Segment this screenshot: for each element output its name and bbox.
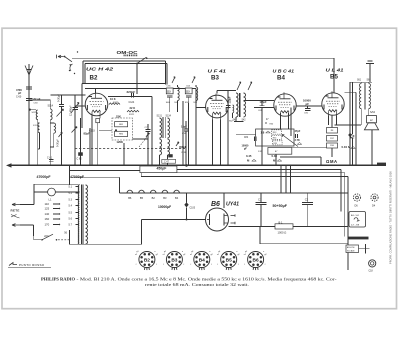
tube base B4 <box>190 251 213 270</box>
svg-text:B5: B5 <box>226 257 232 263</box>
dashed AVC line <box>75 148 185 150</box>
caption line 1 <box>41 277 337 283</box>
wire <box>177 172 345 174</box>
trimmer group C64 <box>185 77 198 104</box>
wire <box>345 91 356 93</box>
svg-text:A3 - 5/4: A3 - 5/4 <box>351 214 359 217</box>
svg-text:UC H 42: UC H 42 <box>86 67 114 72</box>
speaker <box>364 116 378 130</box>
svg-text:B4: B4 <box>277 75 285 82</box>
svg-text:C1: C1 <box>258 198 262 202</box>
svg-text:18pF: 18pF <box>181 126 187 129</box>
svg-text:C-60: C-60 <box>16 96 22 99</box>
diode <box>351 82 354 165</box>
svg-text:47000pF: 47000pF <box>37 175 52 179</box>
svg-text:R33: R33 <box>273 132 276 134</box>
svg-text:a1: a1 <box>244 254 246 256</box>
svg-text:115pF: 115pF <box>260 101 268 104</box>
svg-text:B3: B3 <box>171 257 177 263</box>
wire <box>280 156 321 158</box>
wire <box>290 108 292 137</box>
wire <box>340 170 342 212</box>
wire <box>83 60 166 62</box>
coil S117 <box>33 123 40 149</box>
tube label UBC 41 <box>273 69 295 74</box>
transformer T1 winding labels <box>69 186 79 227</box>
wire <box>244 100 263 102</box>
wire <box>169 103 171 112</box>
svg-text:C138: C138 <box>181 152 187 154</box>
wire <box>123 143 125 165</box>
svg-text:ΩMA: ΩMA <box>326 159 338 164</box>
tube B3 <box>206 94 229 121</box>
svg-text:170: 170 <box>45 223 50 227</box>
tube B2 <box>85 92 108 119</box>
transformer S61 S63 <box>357 80 371 110</box>
wire <box>75 105 85 107</box>
wire <box>262 100 274 102</box>
wire <box>260 193 262 202</box>
resistor 1.8M <box>261 130 271 134</box>
svg-text:1000 Ω: 1000 Ω <box>278 231 287 235</box>
svg-text:g2: g2 <box>238 254 240 256</box>
svg-text:B6: B6 <box>128 196 132 200</box>
resistor 0.04M <box>342 145 356 149</box>
wire <box>188 103 190 165</box>
heater chain filaments <box>127 190 179 200</box>
svg-text:OM-OC: OM-OC <box>117 50 139 55</box>
mains RETE <box>11 203 35 218</box>
svg-text:S42: S42 <box>242 119 247 121</box>
wire <box>69 230 71 245</box>
svg-text:120K: 120K <box>116 140 123 144</box>
trimmer group C65 <box>166 77 180 104</box>
wire <box>217 90 236 92</box>
variable capacitor 12-490pF <box>70 95 80 165</box>
resistor R34 <box>272 135 282 139</box>
potentiometer wiper arrow <box>282 135 298 147</box>
tube label B5 <box>330 73 338 80</box>
wire <box>223 193 225 208</box>
svg-text:g2: g2 <box>156 254 158 256</box>
wire <box>177 103 179 112</box>
wire <box>292 147 332 149</box>
tube base B6 <box>244 251 267 270</box>
wire <box>216 91 218 94</box>
wire <box>70 243 142 245</box>
pickup box <box>349 212 366 228</box>
wire heater line <box>120 192 349 194</box>
wire <box>254 107 274 109</box>
wire <box>335 124 362 126</box>
node diamond <box>348 133 352 137</box>
wire <box>50 94 85 96</box>
svg-text:PROPR. COMPILAZIONE RADIO - TU: PROPR. COMPILAZIONE RADIO - TUTTI I DIRI… <box>389 171 393 264</box>
wire <box>212 120 214 166</box>
svg-text:pF: pF <box>18 91 22 95</box>
capacitor 450pF box <box>140 166 177 173</box>
wire <box>89 128 91 165</box>
wire <box>333 58 335 96</box>
svg-text:5.3: 5.3 <box>69 199 73 202</box>
note punto rosso <box>8 263 51 268</box>
svg-text:a1: a1 <box>135 254 137 256</box>
coil S110 <box>29 109 38 166</box>
wire <box>97 123 99 166</box>
svg-text:C124: C124 <box>129 101 135 104</box>
wire <box>261 155 263 166</box>
svg-text:g1: g1 <box>191 251 193 253</box>
svg-text:B5: B5 <box>330 73 338 80</box>
wire <box>280 113 282 129</box>
svg-text:1.8: 1.8 <box>261 130 265 134</box>
resistor network box <box>256 129 294 146</box>
wire <box>119 177 121 193</box>
svg-text:B4: B4 <box>175 196 179 200</box>
capacitor C60 4700pF <box>16 87 32 99</box>
svg-text:350pF: 350pF <box>179 145 187 149</box>
antenna <box>25 64 33 165</box>
svg-text:220: 220 <box>44 234 49 238</box>
wire <box>82 61 84 84</box>
svg-text:160: 160 <box>45 217 50 221</box>
wire <box>34 183 79 185</box>
svg-text:g2: g2 <box>264 254 266 256</box>
coil S114 <box>48 100 54 165</box>
wire <box>234 121 244 123</box>
svg-text:5.2: 5.2 <box>69 192 73 195</box>
wire <box>290 165 292 193</box>
capacitor 47pF <box>295 130 301 138</box>
wire <box>70 169 140 171</box>
coil S118 <box>50 123 55 147</box>
svg-text:g1: g1 <box>164 251 166 253</box>
tube label B3 <box>211 75 219 82</box>
resistor 4.7K <box>295 139 302 145</box>
wire <box>331 148 333 157</box>
capacitor 47000pF second <box>70 175 85 179</box>
wire <box>82 83 166 85</box>
capacitor C63 82pF <box>26 97 41 104</box>
tube label B4 <box>277 75 285 82</box>
svg-text:rente totale 68 mA. Consumo to: rente totale 68 mA. Consumo totale 32 wa… <box>145 282 249 287</box>
tube B4 <box>274 92 296 118</box>
svg-text:B3: B3 <box>163 196 167 200</box>
node B6 heater terminals <box>231 214 236 224</box>
svg-text:125: 125 <box>45 207 50 211</box>
tube base B2 <box>135 251 158 270</box>
wire <box>84 64 86 84</box>
svg-text:M: M <box>265 123 267 125</box>
svg-text:47pF: 47pF <box>295 130 301 133</box>
svg-text:R34: R34 <box>273 138 276 140</box>
svg-text:S/64: S/64 <box>370 111 376 114</box>
coil S62 <box>229 105 234 123</box>
capacitor C84 10000pF <box>242 134 257 150</box>
svg-text:C2: C2 <box>305 198 309 202</box>
svg-text:10000μF: 10000μF <box>158 205 171 209</box>
svg-text:U L 41: U L 41 <box>326 68 345 73</box>
knob C18 <box>369 260 376 273</box>
svg-text:10 K: 10 K <box>110 97 116 101</box>
svg-text:R35: R35 <box>274 143 277 145</box>
wire <box>177 169 341 171</box>
capacitor 47000pF first <box>37 175 52 179</box>
wire <box>360 109 362 125</box>
capacitor C46 115pF left <box>226 91 232 166</box>
capacitor C147 <box>162 154 176 163</box>
svg-text:g1: g1 <box>245 251 247 253</box>
trimmer C138 350pF <box>176 142 187 154</box>
wire <box>307 193 309 202</box>
IF transformer S141 S142 <box>233 82 252 121</box>
jack D4 <box>371 194 378 208</box>
jack D6 <box>353 194 360 208</box>
wire <box>328 116 330 126</box>
wire <box>275 154 277 165</box>
svg-text:S61: S61 <box>357 80 362 82</box>
resistor box lower E7 <box>268 148 292 155</box>
label 50+50uF <box>273 204 288 208</box>
resistor R38 <box>327 128 338 134</box>
wire <box>140 173 142 177</box>
tube label B2 <box>90 74 98 81</box>
wire <box>166 64 168 85</box>
tube B6 <box>206 208 229 231</box>
svg-text:g2: g2 <box>211 254 213 256</box>
wire <box>85 87 196 89</box>
svg-text:S57-A58: S57-A58 <box>347 250 354 253</box>
wire <box>133 138 149 140</box>
capacitor C61 115pF <box>258 101 267 166</box>
svg-text:450pF: 450pF <box>157 167 167 171</box>
svg-text:RETE: RETE <box>11 209 20 213</box>
node S164 <box>370 111 376 114</box>
svg-text:S131: S131 <box>157 116 163 118</box>
svg-text:C 62: C 62 <box>77 157 83 160</box>
svg-text:B6: B6 <box>253 257 259 263</box>
resistor 120K <box>116 140 123 144</box>
resistor R122 10K <box>109 97 120 105</box>
resistor 0.45M <box>246 154 256 163</box>
svg-text:115pF: 115pF <box>229 96 232 104</box>
svg-text:a1: a1 <box>190 254 192 256</box>
svg-text:B6: B6 <box>211 201 220 208</box>
IF transformer S131 S134 <box>157 116 172 139</box>
switch wave-change <box>136 57 148 64</box>
wire <box>355 92 357 165</box>
capacitor C163 <box>89 129 117 132</box>
svg-text:4.7K: 4.7K <box>295 139 300 142</box>
svg-text:pF: pF <box>244 148 248 151</box>
fuse L1 <box>34 188 79 201</box>
wire <box>371 130 373 166</box>
connection box <box>346 244 370 254</box>
wire <box>260 243 348 245</box>
svg-text:C18: C18 <box>369 270 374 272</box>
svg-text:C105: C105 <box>190 208 196 210</box>
wire <box>236 133 248 135</box>
wire <box>95 88 97 93</box>
capacitor C124 220pF <box>108 90 152 104</box>
resistor R82 <box>115 131 128 136</box>
resistor 0.39M <box>272 154 282 163</box>
svg-text:U F 41: U F 41 <box>208 69 227 74</box>
svg-text:pF: pF <box>306 102 310 106</box>
tube label B6 UY41 <box>211 201 239 208</box>
capacitor C105 10000pF <box>158 193 196 221</box>
resistor 22K upper <box>116 114 121 118</box>
svg-text:S41: S41 <box>233 119 238 121</box>
switch mains 220 <box>34 231 70 240</box>
capacitor C36 18pF <box>181 121 188 165</box>
wire <box>259 227 261 244</box>
node OM-OC label <box>117 50 139 56</box>
svg-text:140: 140 <box>45 212 50 216</box>
svg-text:PUNTO ROSSO: PUNTO ROSSO <box>19 263 45 267</box>
svg-text:B5: B5 <box>140 196 144 200</box>
tube base B3 <box>163 251 186 270</box>
wire <box>331 116 333 128</box>
transformer T1 primary taps <box>45 202 61 227</box>
wire <box>285 165 287 193</box>
tube label UL 41 <box>326 68 345 73</box>
svg-text:82 pF: 82 pF <box>34 97 41 101</box>
svg-text:C 61: C 61 <box>47 157 53 160</box>
svg-text:UY41: UY41 <box>226 202 239 208</box>
resistor R7 tiny <box>258 151 263 153</box>
caption line 2 <box>145 282 249 287</box>
svg-text:0.39: 0.39 <box>272 154 278 158</box>
wire <box>85 63 167 65</box>
mains lower lead <box>12 224 34 236</box>
wire <box>288 113 290 129</box>
wire <box>344 173 346 237</box>
wire <box>70 176 120 178</box>
svg-text:C 47: C 47 <box>164 162 170 164</box>
wire <box>141 176 348 178</box>
svg-text:S134: S134 <box>166 116 172 118</box>
svg-text:PHILIPS RADIO: PHILIPS RADIO <box>41 277 75 282</box>
wire <box>350 81 372 83</box>
wire <box>235 117 237 122</box>
tube label UF 41 <box>208 69 227 74</box>
tube base B5 <box>217 251 240 270</box>
svg-text:47000pF: 47000pF <box>70 175 85 179</box>
resistor R33 <box>272 130 282 134</box>
capacitor C161 <box>47 157 53 162</box>
antenna terminal T <box>366 61 374 82</box>
capacitor C91 10000pF <box>296 99 322 115</box>
wire <box>347 177 349 270</box>
capacitor C2 <box>302 198 313 227</box>
terminal strip bar <box>348 237 369 240</box>
svg-text:g1: g1 <box>218 251 220 253</box>
svg-text:B2: B2 <box>152 196 156 200</box>
wire <box>320 157 322 165</box>
tube label UCH 42 <box>86 67 114 72</box>
resistor R121 22K <box>127 106 139 116</box>
trimmer C77 <box>139 124 151 165</box>
resistor R36 <box>327 143 338 148</box>
wire <box>151 97 153 166</box>
resistor cathode <box>96 119 100 123</box>
capacitor C62 82pF <box>72 118 91 165</box>
chassis bus <box>6 163 386 168</box>
svg-text:0-7 - 5/8: 0-7 - 5/8 <box>351 225 360 227</box>
resistor R30 <box>265 119 274 126</box>
svg-text:B2: B2 <box>144 257 150 263</box>
dashed box B2 network <box>112 118 133 140</box>
svg-text:B3: B3 <box>211 75 219 82</box>
svg-text:0.45: 0.45 <box>246 154 252 158</box>
wire <box>91 116 93 166</box>
svg-text:12-490pF: 12-490pF <box>70 105 73 116</box>
wire <box>220 120 222 166</box>
svg-text:22 K: 22 K <box>130 106 136 110</box>
svg-text:g1: g1 <box>136 251 138 253</box>
svg-text:S63: S63 <box>367 80 372 82</box>
resistor R37 <box>327 136 338 142</box>
wire <box>136 64 138 95</box>
wire <box>72 57 334 59</box>
resistor R35 <box>272 141 282 145</box>
svg-text:110: 110 <box>45 202 50 206</box>
svg-text:a1: a1 <box>217 254 219 256</box>
svg-text:5.4: 5.4 <box>69 205 73 208</box>
svg-text:9-30pF: 9-30pF <box>57 139 60 147</box>
svg-text:a1: a1 <box>163 254 165 256</box>
antenna selector arrow <box>57 51 79 74</box>
svg-text:g2: g2 <box>183 254 185 256</box>
wire <box>61 95 63 98</box>
resistor R81 <box>115 122 128 127</box>
wire <box>141 220 143 245</box>
svg-text:5.7: 5.7 <box>69 224 73 227</box>
current label <box>326 159 338 164</box>
svg-text:5.1: 5.1 <box>69 186 73 189</box>
wire <box>182 101 184 165</box>
barretter B1 1000ohm <box>229 220 349 234</box>
wire <box>349 82 351 165</box>
transformer T1 <box>78 184 87 244</box>
wire <box>196 107 206 109</box>
svg-text:U B C 41: U B C 41 <box>273 69 295 74</box>
svg-text:5.6: 5.6 <box>69 218 73 221</box>
wire <box>81 84 83 128</box>
wire <box>69 165 71 185</box>
svg-text:B2: B2 <box>90 74 98 81</box>
wire <box>280 165 282 193</box>
wire <box>33 184 35 204</box>
IF transformer secondary coils <box>160 139 170 165</box>
wire <box>165 61 167 85</box>
wire <box>29 99 50 101</box>
capacitor C1 <box>256 198 267 227</box>
svg-text:R121: R121 <box>129 114 135 116</box>
wire <box>142 219 206 221</box>
svg-text:0.04: 0.04 <box>342 145 348 149</box>
svg-text:50+50μF: 50+50μF <box>273 204 288 208</box>
wire <box>368 109 370 116</box>
svg-text:A53-C56: A53-C56 <box>347 246 354 249</box>
tube B5 <box>322 91 344 117</box>
svg-text:5.5: 5.5 <box>69 212 73 215</box>
wire <box>195 88 197 165</box>
wire <box>336 116 338 126</box>
trimmer 9-30pF <box>57 94 65 166</box>
svg-text:B4: B4 <box>199 257 205 263</box>
